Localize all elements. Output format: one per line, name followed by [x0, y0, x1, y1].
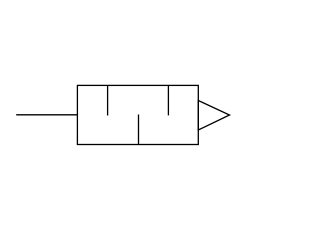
wire inlet lead	[16, 114, 77, 116]
valve body rectangle	[77, 85, 198, 144]
baffle line 3 (from bottom)	[138, 115, 140, 145]
baffle line 2 (from top)	[167, 85, 169, 115]
baffle line 1 (from top)	[107, 85, 109, 115]
output nozzle triangle	[198, 101, 229, 131]
